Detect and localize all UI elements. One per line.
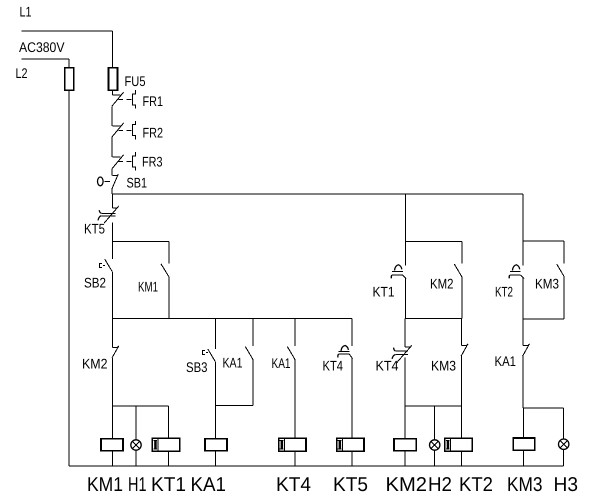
coil KM1 (101, 439, 123, 451)
wire down to KT2 contact (522, 241, 524, 266)
svg-text:KT1: KT1 (373, 284, 395, 300)
svg-text:FU5: FU5 (125, 73, 146, 89)
svg-text:AC380V: AC380V (19, 39, 65, 55)
svg-text:FR2: FR2 (143, 125, 164, 141)
wire KT2 to rejoin (522, 278, 524, 319)
wire left coil branch (112, 405, 168, 407)
svg-text:KM2: KM2 (386, 474, 428, 496)
wire SB3 branch down (214, 318, 216, 349)
svg-text:H3: H3 (554, 474, 579, 496)
wire KA1 contact to parallel rejoin (252, 359, 254, 405)
wire rejoin row (left long) (112, 317, 351, 319)
coil KM2 (394, 439, 416, 451)
relay contact KA1 (NO, feeds KT4 coil) (287, 347, 295, 360)
pushbutton SB1 (NC stop button) (98, 174, 119, 189)
wire to KT4 NC contact (404, 319, 406, 348)
wire L2 rail down left side (68, 59, 70, 466)
wire lamp H1 to bus (135, 450, 137, 466)
timer contact KT2 (NO delayed closing) (509, 265, 524, 279)
svg-text:SB3: SB3 (186, 359, 208, 375)
svg-text:SB2: SB2 (84, 275, 106, 291)
wire down to KT1 contact (404, 242, 406, 266)
wire KT5 to branch (112, 222, 114, 241)
svg-text:KT5: KT5 (333, 474, 368, 496)
wire KT4 contact down to coil KT5 (351, 358, 353, 438)
wire to KM2 contact (112, 318, 114, 347)
svg-text:KM2: KM2 (430, 276, 454, 292)
svg-text:KM3: KM3 (507, 474, 543, 496)
coil KA1 (205, 439, 227, 451)
coil KM3 (513, 438, 534, 450)
fuse (L2 side) (65, 68, 74, 90)
coil KT4 (time relay coil) (279, 438, 306, 451)
thermal relay contact FR1 (112, 90, 135, 108)
wire KM2 contact branch down (461, 242, 463, 264)
wire FR2 to FR3 (111, 137, 113, 157)
pushbutton SB3 (NO) (202, 349, 215, 362)
lamp H1 (131, 440, 141, 450)
wire mid rejoin (405, 318, 462, 320)
wire to coil KM1 (111, 406, 113, 439)
wire SB2 to rejoin (111, 272, 113, 319)
wire KM3 NC down to branch (461, 356, 463, 406)
wire to coil KA1 (215, 405, 217, 438)
wire FR1 to FR2 (111, 106, 113, 126)
svg-text:KT4: KT4 (376, 358, 399, 374)
wire right branch from node row (522, 194, 524, 241)
svg-text:KT1: KT1 (151, 474, 186, 496)
wire parallel rejoin SB3/KA1 (215, 404, 252, 406)
wire second KA1 branch down (294, 318, 296, 346)
wire main horizontal node row (113, 193, 524, 195)
wire KA1 NC down to branch (522, 356, 524, 408)
contactor contact KM2 (NO) (454, 264, 462, 277)
contactor contact KM3 (NO) (557, 264, 565, 277)
wire lamp H2 to bus (434, 450, 436, 466)
wire to lamp H1 (135, 406, 137, 440)
thermal relay contact FR2 (112, 121, 135, 139)
wire to coil KT1 (168, 406, 170, 438)
timer contact KT1 (NO delayed closing) (391, 265, 406, 279)
svg-text:KM1: KM1 (138, 279, 158, 295)
svg-text:L1: L1 (20, 4, 32, 20)
wire coil KA1 to bus (215, 451, 217, 466)
wire KM1 contact to rejoin (168, 277, 170, 319)
coil KT5 (time relay coil) (337, 438, 364, 451)
wire mid branch to KM2 contact (405, 241, 462, 243)
timer contact KT4 (NO delayed closing, feeds KT5 coil) (338, 346, 353, 359)
svg-text:KT4: KT4 (323, 358, 344, 374)
wire SB1 to node wire (111, 189, 113, 194)
wire mid branch from node row (404, 194, 406, 242)
wire bottom bus (69, 465, 564, 467)
wire L1 top horizontal (21, 30, 112, 32)
wire KT4 contact branch down (351, 318, 353, 346)
wire coil KT2 to bus (461, 451, 463, 466)
lamp H2 (430, 440, 440, 450)
wire KM1 branch down (168, 242, 170, 264)
wire KA1 contact 2 down to coil KT4 (294, 359, 296, 438)
svg-text:KA1: KA1 (272, 355, 291, 371)
wire KM2 NO to rejoin (461, 277, 463, 319)
wire KA1 contact branch down (252, 318, 254, 346)
contactor contact KM3 (NC, parallel with KT4) (461, 319, 468, 357)
svg-text:KT2: KT2 (495, 284, 513, 300)
wire KT4 NC to branch (404, 358, 406, 406)
svg-text:KM3: KM3 (535, 276, 559, 292)
svg-text:KT4: KT4 (276, 474, 311, 496)
wire right rejoin (523, 318, 564, 320)
wire to coil KM3 (522, 408, 524, 438)
wire coil KT1 to bus (168, 451, 170, 466)
wire coil KM3 to bus (522, 450, 524, 466)
svg-text:KM1: KM1 (87, 474, 123, 496)
wire coil KM1 to bus (111, 451, 113, 466)
coil KT2 (time relay coil) (445, 438, 473, 451)
svg-text:SB1: SB1 (127, 175, 148, 191)
wire fuse FU5 to FR1 (112, 90, 114, 95)
wire KM2 contact down to branch (111, 358, 113, 406)
svg-text:KT2: KT2 (459, 474, 493, 496)
wire KT1 to rejoin (404, 278, 406, 319)
fuse FU5 (109, 68, 118, 90)
wire right coil branch (523, 407, 564, 409)
wire to KA1 NC contact (522, 319, 524, 346)
svg-text:L2: L2 (16, 65, 28, 81)
wire KM3 NO to rejoin (563, 277, 565, 319)
wire lamp H3 to bus (563, 450, 565, 466)
coil KT1 (time relay coil) (152, 438, 179, 451)
svg-text:KM3: KM3 (431, 358, 456, 374)
timer contact KT4 (NC delayed opening) (392, 345, 412, 362)
wire mid coil branch (405, 405, 462, 407)
wire node to KT5 (112, 194, 114, 208)
timer contact KT5 (NC delayed opening) (98, 206, 119, 224)
lamp H3 (559, 439, 569, 449)
contactor contact KM1 (NO self-hold) (161, 264, 169, 277)
wire to lamp H3 (563, 408, 565, 439)
wire right branch to KM3 contact (523, 240, 564, 242)
svg-text:KM2: KM2 (82, 356, 108, 372)
svg-text:H2: H2 (428, 474, 452, 496)
wire L2 horizontal (21, 58, 69, 60)
wire FR3 to SB1 (111, 169, 113, 176)
svg-text:H1: H1 (128, 474, 147, 496)
wire to lamp H2 (434, 406, 436, 440)
wire branch down to SB2 (112, 242, 114, 259)
wire coil KT4 to bus (294, 451, 296, 466)
wire L1 drop to fuse FU5 (112, 31, 114, 68)
svg-text:FR3: FR3 (142, 154, 163, 170)
wire to coil KT2 (461, 406, 463, 438)
contactor contact KM2 (NC) (112, 346, 119, 358)
thermal relay contact FR3 (112, 152, 135, 170)
wire coil KM2 to bus (404, 451, 406, 466)
wire to coil KM2 (404, 406, 406, 439)
wire KM3 contact branch down (563, 241, 565, 264)
svg-text:KA1: KA1 (495, 353, 517, 369)
wire branch to KM1 contact (113, 241, 169, 243)
wire coil KT5 to bus (351, 451, 353, 466)
svg-text:KA1: KA1 (191, 474, 227, 496)
relay contact KA1 (NO, parallel with SB3) (245, 347, 253, 360)
svg-text:FR1: FR1 (143, 93, 164, 109)
pushbutton SB2 (NO start) (99, 259, 112, 272)
wire SB3 to parallel rejoin (214, 362, 216, 406)
relay contact KA1 (NC, feeds KM3 coil) (523, 344, 530, 356)
svg-text:KA1: KA1 (223, 355, 243, 371)
svg-text:KT5: KT5 (84, 221, 105, 237)
